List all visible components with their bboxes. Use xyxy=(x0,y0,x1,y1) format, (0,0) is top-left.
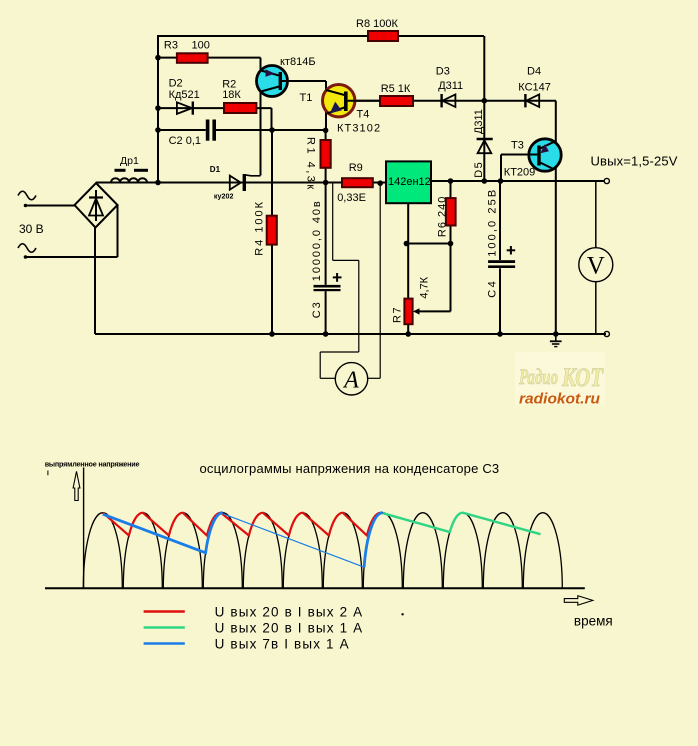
svg-text:ку202: ку202 xyxy=(214,191,234,200)
svg-text:КТ209: КТ209 xyxy=(504,166,535,178)
svg-text:R1 4,3к: R1 4,3к xyxy=(304,137,316,192)
svg-text:D1: D1 xyxy=(210,165,221,174)
svg-text:0,33Е: 0,33Е xyxy=(337,192,366,204)
svg-text:D4: D4 xyxy=(527,66,541,78)
svg-text:R4 100К: R4 100К xyxy=(253,200,265,256)
svg-text:R9: R9 xyxy=(349,162,363,174)
svg-text:radiokot.ru: radiokot.ru xyxy=(519,392,600,408)
svg-text:Т4: Т4 xyxy=(357,109,370,121)
svg-text:Д311: Д311 xyxy=(438,80,463,92)
svg-text:V: V xyxy=(587,253,605,280)
svg-text:U вых 20 в I вых 2 А: U вых 20 в I вых 2 А xyxy=(215,605,364,620)
svg-text:D2: D2 xyxy=(169,77,183,89)
svg-text:R3: R3 xyxy=(164,40,178,52)
svg-text:R6 240: R6 240 xyxy=(436,196,448,237)
svg-text:выпрямленное напряжение: выпрямленное напряжение xyxy=(45,460,140,469)
svg-text:R5 1К: R5 1К xyxy=(381,83,411,95)
svg-text:100,0 25В: 100,0 25В xyxy=(487,188,499,257)
svg-text:Др1: Др1 xyxy=(120,155,139,167)
svg-text:R7: R7 xyxy=(392,306,404,323)
svg-text:U вых 7в I вых 1 А: U вых 7в I вых 1 А xyxy=(215,637,350,652)
svg-text:D5: D5 xyxy=(473,161,485,178)
svg-text:Радио: Радио xyxy=(518,364,558,389)
svg-text:С3: С3 xyxy=(311,300,323,318)
svg-text:А: А xyxy=(342,368,359,394)
svg-text:КТ3102: КТ3102 xyxy=(337,123,381,135)
svg-text:18К: 18К xyxy=(222,89,241,101)
svg-text:время: время xyxy=(574,614,613,629)
svg-text:30 В: 30 В xyxy=(19,222,44,236)
svg-text:C2 0,1: C2 0,1 xyxy=(169,135,201,147)
svg-text:кт814Б: кт814Б xyxy=(280,56,316,68)
svg-text:4,7К: 4,7К xyxy=(418,276,430,298)
svg-text:D3: D3 xyxy=(436,66,450,78)
svg-text:10000,0 40в: 10000,0 40в xyxy=(311,199,323,281)
svg-text:Т3: Т3 xyxy=(511,140,524,152)
svg-text:КС147: КС147 xyxy=(518,81,551,93)
svg-text:U вых 20 в I вых 1 А: U вых 20 в I вых 1 А xyxy=(215,621,364,636)
svg-text:Д311: Д311 xyxy=(473,109,485,134)
svg-text:R8 100К: R8 100К xyxy=(356,18,398,30)
svg-text:Uвых=1,5-25V: Uвых=1,5-25V xyxy=(591,154,678,169)
svg-text:Кд521: Кд521 xyxy=(169,89,200,101)
svg-text:100: 100 xyxy=(192,40,210,52)
svg-text:осцилограммы напряжения на ко: осцилограммы напряжения на конденсаторе … xyxy=(200,461,500,476)
svg-text:Т1: Т1 xyxy=(300,92,313,104)
svg-text:КОТ: КОТ xyxy=(561,363,604,392)
svg-text:142ен12: 142ен12 xyxy=(388,176,431,188)
svg-text:С4: С4 xyxy=(487,279,499,298)
